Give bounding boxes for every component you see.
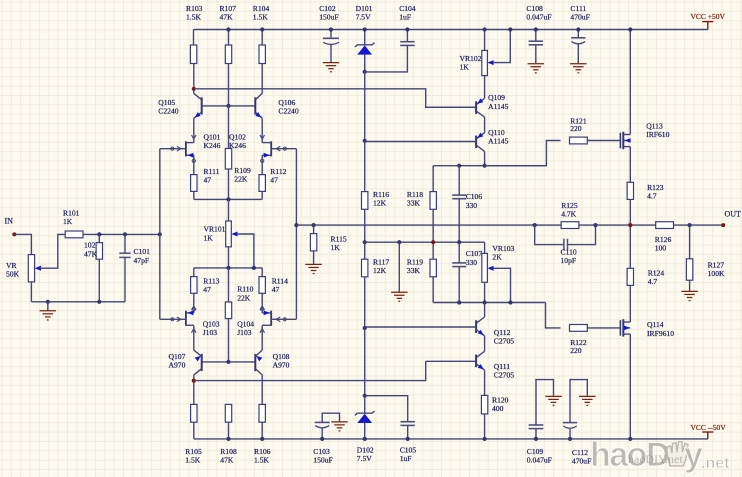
resistor R104 1.5K bbox=[261, 30, 263, 46]
svg-text:1.5K: 1.5K bbox=[186, 12, 201, 21]
transistor Q109 A1145 bbox=[484, 76, 486, 99]
wire VR bottom to ground rail bbox=[30, 282, 32, 302]
transistor Q112 C2705 bbox=[484, 303, 486, 318]
wire Q112 emitter to Q111 collector bbox=[484, 336, 486, 352]
svg-text:C2240: C2240 bbox=[158, 107, 178, 116]
node Q107/Q108 base junction bbox=[226, 360, 230, 364]
ground mid bbox=[398, 242, 400, 292]
node C110 right junction bbox=[593, 223, 597, 227]
wire VR102 wiper to rail bbox=[493, 30, 510, 63]
transistor Q108 A970 bbox=[254, 354, 256, 371]
capacitor C104 1uF bbox=[406, 30, 408, 42]
svg-text:22K: 22K bbox=[234, 175, 248, 184]
transistor Q107 A970 bbox=[201, 354, 203, 371]
svg-text:4.7: 4.7 bbox=[648, 277, 658, 286]
potentiometer VR103 2K bbox=[484, 242, 486, 253]
svg-text:J103: J103 bbox=[237, 328, 252, 337]
node R103/Q105 junction bbox=[192, 87, 196, 91]
transistor Q106 C2240 bbox=[254, 97, 256, 114]
wire VR wiper to R101 bbox=[40, 234, 65, 268]
svg-text:220: 220 bbox=[570, 346, 582, 355]
svg-text:47: 47 bbox=[203, 285, 211, 294]
svg-text:K246: K246 bbox=[204, 141, 221, 150]
node input/bus junction bbox=[158, 232, 162, 236]
ground C111 bbox=[570, 63, 587, 65]
wire sources rail upper bbox=[194, 198, 262, 200]
svg-text:50K: 50K bbox=[6, 270, 20, 279]
wire Q113 source to R123 bbox=[629, 147, 631, 183]
ground C102 bbox=[323, 62, 340, 64]
resistor R103 1.5K bbox=[193, 30, 195, 46]
svg-text:150uF: 150uF bbox=[313, 456, 332, 465]
ground input bbox=[47, 302, 49, 311]
wire VAS lower node line bbox=[433, 302, 545, 304]
svg-text:VCC +50V: VCC +50V bbox=[691, 12, 726, 21]
resistor R122 220 bbox=[546, 303, 561, 328]
wire left gate bus bbox=[159, 149, 161, 320]
node Q107 collector junction bbox=[192, 379, 196, 383]
capacitor C102 150uF bbox=[330, 30, 332, 39]
resistor R116 12K bbox=[362, 192, 368, 210]
capacitor C106 330 bbox=[458, 166, 460, 195]
svg-text:VCC --50V: VCC --50V bbox=[691, 423, 727, 432]
svg-text:220: 220 bbox=[570, 124, 582, 133]
wire Q107 collector line to Q111 base bbox=[194, 361, 426, 380]
transistor Q102 K246 bbox=[270, 141, 272, 156]
potentiometer VR101 1K bbox=[228, 199, 230, 221]
mosfet Q113 IRF610 bbox=[619, 133, 621, 149]
capacitor C103 150uF bbox=[321, 428, 323, 439]
node C110 left junction bbox=[533, 223, 537, 227]
resistor R127 100K bbox=[689, 225, 691, 259]
resistor R125 4.7K bbox=[561, 222, 579, 229]
wire mid reference line bbox=[365, 241, 485, 243]
resistor R113 47 bbox=[193, 268, 195, 277]
zener D102 7.5V bbox=[364, 396, 366, 414]
resistor R115 1K bbox=[313, 225, 315, 234]
VCC -50V terminal bbox=[707, 432, 709, 439]
svg-text:7.5V: 7.5V bbox=[357, 454, 372, 463]
resistor R101 1K bbox=[65, 231, 83, 238]
wire sources rail lower bbox=[194, 267, 262, 269]
resistor R106 1.5K bbox=[259, 404, 265, 422]
svg-text:C2705: C2705 bbox=[494, 370, 514, 379]
svg-text:330: 330 bbox=[466, 201, 478, 210]
wire Q114 source to R124 bbox=[629, 285, 631, 322]
node R127 junction bbox=[688, 223, 692, 227]
svg-text:12K: 12K bbox=[373, 266, 387, 275]
ground C108 bbox=[528, 63, 545, 65]
svg-text:47: 47 bbox=[204, 176, 212, 185]
svg-text:4.7K: 4.7K bbox=[561, 209, 576, 218]
resistor R105 1.5K bbox=[191, 404, 197, 422]
svg-text:47K: 47K bbox=[220, 12, 234, 21]
svg-text:1.5K: 1.5K bbox=[254, 456, 269, 465]
svg-text:400: 400 bbox=[492, 404, 504, 413]
node R116/R117 junction bbox=[363, 240, 367, 244]
resistor R121 220 bbox=[485, 141, 561, 166]
node OUT terminal bbox=[721, 223, 725, 227]
resistor R124 4.7 bbox=[627, 268, 633, 285]
zener D101 7.5V bbox=[364, 30, 366, 45]
node feedback/bus junction bbox=[294, 223, 298, 227]
capacitor C107 330 bbox=[458, 242, 460, 263]
transistor Q103 J103 bbox=[185, 311, 187, 326]
svg-text:OUT: OUT bbox=[725, 210, 742, 219]
svg-text:470uF: 470uF bbox=[570, 12, 589, 21]
wire zener reference column bbox=[364, 72, 366, 192]
svg-text:J103: J103 bbox=[203, 328, 218, 337]
resistor R120 400 bbox=[484, 370, 486, 395]
resistor R112 47 bbox=[259, 175, 265, 192]
svg-text:47K: 47K bbox=[220, 456, 234, 465]
svg-text:C2240: C2240 bbox=[278, 107, 298, 116]
capacitor C110 10pF bbox=[535, 225, 564, 245]
node Q105/Q106 base junction bbox=[226, 104, 230, 108]
transistor Q101 K246 bbox=[185, 141, 187, 156]
transistor Q104 J103 bbox=[270, 311, 272, 326]
svg-text:22K: 22K bbox=[237, 293, 251, 302]
svg-text:1K: 1K bbox=[63, 217, 73, 226]
capacitor C101 47pF bbox=[124, 234, 126, 253]
node D101/C104 junction bbox=[363, 70, 367, 74]
ground C109 bbox=[545, 395, 562, 397]
wire Q105 collector to Q109 base bbox=[194, 89, 476, 108]
resistor R110 22K bbox=[228, 268, 230, 362]
svg-text:A1145: A1145 bbox=[488, 136, 509, 145]
wire Q105 emitter to Q101 drain bbox=[193, 118, 195, 142]
svg-text:C2705: C2705 bbox=[494, 337, 514, 346]
resistor R114 47 bbox=[261, 268, 263, 277]
svg-text:100K: 100K bbox=[708, 269, 725, 278]
wire input to VR bbox=[14, 234, 31, 254]
resistor R102 47K bbox=[98, 234, 100, 242]
svg-text:47K: 47K bbox=[84, 249, 98, 258]
wire Q109 collector to Q110 emitter bbox=[484, 117, 486, 132]
resistor R117 12K bbox=[362, 259, 368, 277]
resistor R118 33K bbox=[432, 166, 434, 192]
svg-text:470uF: 470uF bbox=[572, 457, 591, 466]
resistor R123 4.7 bbox=[627, 182, 633, 199]
wire Q107 collector to R105 bbox=[193, 375, 195, 405]
wire Q108 collector to R106 bbox=[261, 375, 263, 405]
svg-text:12K: 12K bbox=[373, 199, 387, 208]
wire VCC+ top rail bbox=[194, 29, 708, 31]
wire VR103 wiper bbox=[493, 268, 511, 302]
wire right gate bus bbox=[295, 149, 297, 320]
svg-text:330: 330 bbox=[466, 258, 478, 267]
resistor R108 47K bbox=[225, 404, 231, 422]
svg-text:IRF610: IRF610 bbox=[646, 130, 669, 139]
svg-text:IRF9610: IRF9610 bbox=[647, 329, 674, 338]
svg-text:7.5V: 7.5V bbox=[356, 12, 371, 21]
svg-text:47pF: 47pF bbox=[134, 256, 150, 265]
transistor Q110 A1145 bbox=[476, 133, 485, 139]
VCC +50V terminal bbox=[707, 22, 709, 30]
svg-text:1.5K: 1.5K bbox=[253, 12, 268, 21]
svg-text:1K: 1K bbox=[204, 233, 214, 242]
wire VCC- bottom rail bbox=[194, 438, 708, 440]
resistor R109 22K bbox=[225, 149, 231, 170]
capacitor C105 1uF bbox=[365, 396, 408, 422]
svg-text:A970: A970 bbox=[273, 361, 290, 370]
wire input ground rail bbox=[31, 301, 125, 303]
svg-text:47: 47 bbox=[272, 285, 280, 294]
transistor Q105 C2240 bbox=[201, 97, 203, 114]
svg-text:1K: 1K bbox=[460, 63, 470, 72]
transistor Q111 C2705 bbox=[476, 351, 485, 357]
ground R115 bbox=[305, 263, 322, 265]
svg-text:150uF: 150uF bbox=[319, 12, 338, 21]
ground C103 bbox=[331, 421, 348, 423]
node C101 junction bbox=[123, 232, 127, 236]
svg-text:0.047uF: 0.047uF bbox=[527, 456, 552, 465]
capacitor C109 0.047uF bbox=[535, 429, 537, 439]
node R102 junction bbox=[97, 232, 101, 236]
svg-text:A1145: A1145 bbox=[488, 102, 509, 111]
svg-text:1uF: 1uF bbox=[399, 12, 411, 21]
resistor R126 100 bbox=[656, 222, 674, 229]
wire R101 to gate bus bbox=[83, 233, 160, 235]
watermark haoDIY.net bbox=[590, 436, 730, 474]
svg-text:1.5K: 1.5K bbox=[185, 456, 200, 465]
svg-text:haoDIY.net: haoDIY.net bbox=[628, 452, 683, 466]
resistor R119 33K bbox=[430, 259, 436, 277]
wire Q113 drain to rail bbox=[629, 30, 631, 135]
capacitor C112 470uF bbox=[569, 429, 571, 439]
potentiometer VR 50K bbox=[28, 255, 34, 282]
wire Q106 emitter to Q102 drain bbox=[261, 118, 263, 142]
svg-text:0.047uF: 0.047uF bbox=[526, 12, 551, 21]
wire VR101 wiper bbox=[237, 234, 254, 268]
node Q112 base junction bbox=[363, 326, 367, 330]
svg-text:2K: 2K bbox=[492, 252, 502, 261]
node D102 junction bbox=[363, 394, 367, 398]
svg-text:1K: 1K bbox=[331, 243, 341, 252]
svg-text:A970: A970 bbox=[169, 361, 186, 370]
svg-text:33K: 33K bbox=[407, 266, 421, 275]
svg-text:4.7: 4.7 bbox=[647, 192, 657, 201]
svg-text:.net: .net bbox=[701, 455, 730, 472]
wire Q110 collector bbox=[484, 151, 486, 165]
wire VAS upper node line bbox=[433, 165, 546, 167]
svg-text:1uF: 1uF bbox=[400, 454, 412, 463]
svg-text:IN: IN bbox=[5, 216, 14, 225]
svg-text:100: 100 bbox=[655, 244, 667, 253]
ground C112 bbox=[579, 395, 596, 397]
wire output line bbox=[296, 224, 723, 226]
resistor R111 47 bbox=[191, 175, 197, 192]
potentiometer VR102 1K bbox=[484, 30, 486, 51]
svg-text:47: 47 bbox=[270, 176, 278, 185]
svg-text:10pF: 10pF bbox=[561, 256, 577, 265]
resistor R107 47K bbox=[228, 30, 230, 46]
svg-text:33K: 33K bbox=[407, 199, 421, 208]
node output/mosfet junction bbox=[628, 223, 632, 227]
capacitor C111 470uF bbox=[577, 30, 579, 38]
ground R127 bbox=[681, 290, 698, 292]
mosfet Q114 IRF9610 bbox=[619, 320, 621, 336]
node Q110 base junction bbox=[363, 139, 367, 143]
capacitor C108 0.047uF bbox=[535, 30, 537, 42]
wire Q114 drain to rail bbox=[629, 334, 631, 439]
node R115 junction bbox=[312, 223, 316, 227]
